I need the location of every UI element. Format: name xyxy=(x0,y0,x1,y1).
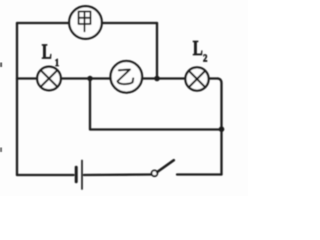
lamp L1 xyxy=(37,67,61,91)
wire: middle horizontal row xyxy=(17,77,218,79)
svg-text:1: 1 xyxy=(55,57,59,69)
lamp L2 xyxy=(185,67,208,90)
switch S pivot xyxy=(152,170,158,176)
label L2 xyxy=(193,37,208,65)
wire: switch contact to right corner xyxy=(177,173,222,175)
wire: bottom left to battery xyxy=(17,174,74,176)
meter 甲 xyxy=(69,6,102,39)
battery: long thin positive plate xyxy=(81,161,83,190)
svg-text:L: L xyxy=(42,40,52,63)
node C junction dot xyxy=(219,126,225,132)
node A junction dot xyxy=(87,76,92,81)
svg-text:L: L xyxy=(193,37,203,60)
wire: left vertical branch xyxy=(16,23,18,175)
battery: short thick negative plate xyxy=(75,167,78,181)
svg-text:2: 2 xyxy=(203,53,207,65)
node B junction dot xyxy=(154,76,160,82)
wire: right vertical xyxy=(218,79,222,175)
wire: bypass from node A down xyxy=(90,79,222,130)
meter 乙 xyxy=(111,61,143,93)
wire: top horizontal (meter 甲 branch) xyxy=(17,22,157,24)
switch S lever xyxy=(157,160,174,172)
label L1 xyxy=(42,40,59,69)
wire: battery to switch xyxy=(84,173,152,176)
wire: vertical drop from top branch to node B xyxy=(156,23,158,79)
